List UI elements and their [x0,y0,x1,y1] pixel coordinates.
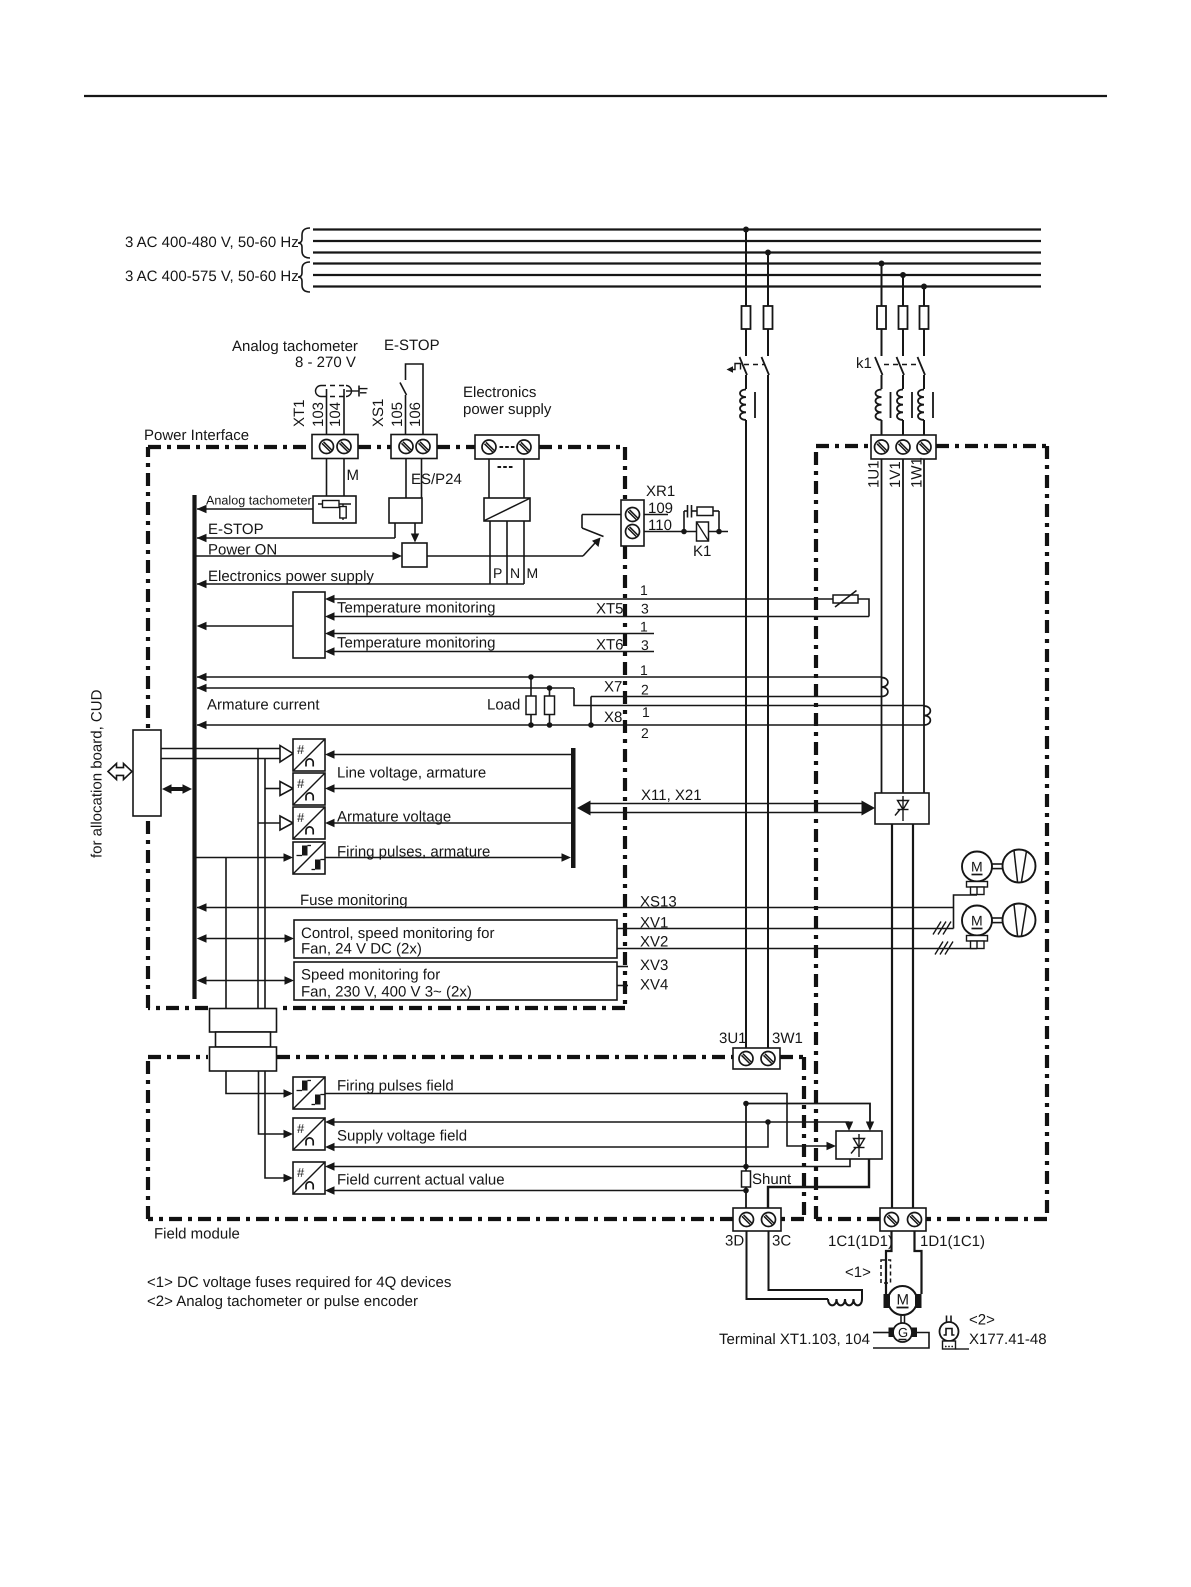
trunk vertical 258 [257,749,259,1009]
screw terminal XT1.104 [337,440,351,454]
analog tachometer box [313,496,356,523]
snubber resistor [697,507,713,516]
temperature monitoring block [293,592,325,658]
fan feed vertical [954,895,978,929]
node R2 top [547,685,553,691]
svg-text:Firing pulses field: Firing pulses field [337,1078,454,1095]
wire E-STOP lead 105 [405,395,407,435]
field winding coil [828,1299,862,1305]
svg-text:3C: 3C [772,1233,791,1250]
converter block U3 armature voltage [293,807,325,839]
armature current X8-1 line [197,724,924,726]
load resistor R2 [549,688,551,696]
wire EPS left lead [488,459,490,498]
armature current X7-2 line [197,687,574,689]
motor M [888,1286,917,1315]
screw terminal EPS left [482,440,496,454]
svg-text:1V1: 1V1 [887,461,904,488]
current transformer CT1 [882,678,888,697]
Power module box border right [1045,446,1049,1219]
fuse F3 [877,306,886,329]
brace group2 [298,262,310,292]
svg-text:1D1(1C1): 1D1(1C1) [920,1233,985,1250]
wire coil to 1U1 [881,420,883,435]
screw terminal 1W1 [917,440,931,454]
svg-text:1: 1 [640,619,648,635]
svg-text:Analog tachometer: Analog tachometer [206,494,312,508]
svg-text:Analog tachometer: Analog tachometer [232,338,358,355]
svg-text:XV3: XV3 [640,957,668,974]
armature current X7-1 line [197,676,882,678]
inductor on 881 [876,390,882,420]
svg-text:ES/P24: ES/P24 [411,471,462,488]
svg-text:1W1: 1W1 [909,457,926,488]
firing line U4 to bar [325,857,562,859]
line from U3 to bar [325,819,335,827]
svg-text:3D: 3D [725,1233,744,1250]
svg-text:1C1(1D1): 1C1(1D1) [828,1233,893,1250]
mains bus line L1b [313,262,1041,264]
svg-text:Fan, 24 V DC (2x): Fan, 24 V DC (2x) [301,941,422,958]
svg-text:#: # [297,1165,305,1180]
svg-text:<1> DC voltage fuses required: <1> DC voltage fuses required for 4Q dev… [147,1274,451,1291]
E-STOP switch upper loop [406,364,424,435]
contactor k1 blade A [875,357,883,375]
firing line from bus to U4 [196,857,284,859]
double arrow bus to box1 [205,938,285,940]
wire fuse to contact 746 [745,329,747,356]
svg-text:E-STOP: E-STOP [208,521,264,538]
trunk vertical 265 [264,759,266,1009]
svg-text:power supply: power supply [463,401,552,418]
wire tach lead 104 [343,389,345,435]
wire fuse to contact 768 [767,329,769,356]
node tap5 [921,284,927,290]
armature wire 1C1 to motor [886,1231,892,1294]
svg-text:1U1: 1U1 [866,460,883,488]
screw terminal EPS right [517,440,531,454]
Power module box border left [814,446,818,1219]
svg-text:#: # [297,776,305,791]
svg-text:Line voltage, armature: Line voltage, armature [337,765,486,782]
svg-text:XV1: XV1 [640,915,668,932]
XV1 slashes [933,922,951,935]
node tap1 [743,227,749,233]
firing pulse block U4 [293,842,325,874]
trunk vertical 256 field [259,1071,285,1134]
pulse encoder [940,1322,959,1341]
svg-text:Armature current: Armature current [207,697,320,714]
wire fuse to contact 924 [923,329,925,356]
svg-text:8 - 270 V: 8 - 270 V [295,354,356,371]
fan1 shaft [992,863,1003,865]
open double arrow to CUD [108,764,132,780]
tachometer shield terminal [346,390,359,392]
svg-text:3W1: 3W1 [772,1030,803,1047]
svg-text:104: 104 [327,402,344,427]
Power module box border bottom [816,1217,1047,1221]
node tap2 [765,250,771,256]
board connector stack lower [210,1047,277,1071]
svg-text:2: 2 [641,725,649,741]
Power Interface box border left [146,447,150,1008]
fan1 impeller [1003,850,1036,883]
trunk vertical 226 field [226,1071,284,1094]
node tap3 [879,261,885,267]
node R1 top [528,674,534,680]
screw terminal XS1.106 [416,440,430,454]
screw terminal 1U1 [875,440,889,454]
svg-text:Fuse monitoring: Fuse monitoring [300,892,408,909]
contactor linkage dashed [884,364,920,366]
screw terminal XR1.110 [626,525,640,539]
svg-text:X177.41-48: X177.41-48 [969,1331,1047,1348]
wire contact to coil 924 [923,375,925,389]
svg-text:XT6: XT6 [596,637,624,654]
terminal block 3U1 3W1 [733,1048,780,1069]
Power ON box [402,543,427,567]
wire 104 to tach box [343,459,345,497]
left signal bus vertical [192,495,196,999]
CUD connector [133,730,161,816]
wire fuse to contact 881 [881,329,883,356]
Field module box border left [146,1057,150,1219]
svg-text:#: # [297,810,305,825]
3U1 tap line to field bridge [743,1101,749,1107]
svg-text:3 AC 400-575 V, 50-60 Hz: 3 AC 400-575 V, 50-60 Hz [125,268,299,285]
svg-text:P: P [493,565,502,581]
wire drop feed 768 upper [767,253,769,307]
line from U1 to bar [325,750,335,758]
supply voltage top line [325,1118,335,1126]
node tap4 [900,272,906,278]
breaker manual actuator [731,364,741,370]
XT5 line 3 [325,612,335,620]
node R1 bottom [528,722,534,728]
screw terminal 3W1 [761,1052,775,1066]
wire coil down 746 long [745,420,747,1069]
svg-text:105: 105 [389,402,406,427]
terminal block electronics power supply [475,435,539,459]
svg-text:Shunt: Shunt [752,1171,792,1188]
svg-text:M: M [971,859,983,875]
svg-text:103: 103 [310,402,327,427]
field current top line [325,1162,335,1170]
svg-text:XS13: XS13 [640,894,677,911]
screw terminal XS1.105 [399,440,413,454]
mains bus line L3b [313,285,1041,287]
svg-text:Electronics: Electronics [463,384,536,401]
wire 1V1 down [902,459,904,793]
armature wire 1D1 to motor [915,1231,922,1294]
node K1 right [716,529,722,535]
svg-text:G: G [898,1325,908,1340]
motor shaft [900,1315,902,1323]
svg-text:Power Interface: Power Interface [144,427,249,444]
fuse F5 [920,306,929,329]
converter block U1 line voltage [293,739,325,771]
wire tach lead 103 [326,389,328,435]
svg-text:Temperature monitoring: Temperature monitoring [337,635,495,652]
fuse F2 [764,306,773,329]
current transformer CT2 [924,706,930,725]
inductor on 924 [918,390,924,420]
wire contact down 768 [767,375,769,1069]
svg-text:XT1: XT1 [291,399,308,427]
firing field line [325,1094,827,1147]
EPS dashes below block [498,466,513,468]
relay coil K1 [697,522,709,541]
svg-text:106: 106 [407,402,424,427]
svg-text:M: M [527,565,539,581]
screw terminal 3D [740,1213,754,1227]
wire 103 to tach box [326,459,328,497]
terminal block 1C1 1D1 [880,1208,926,1231]
svg-text:Field current actual value: Field current actual value [337,1172,505,1189]
RC snubber branch [683,511,685,532]
converter block field current [293,1162,325,1194]
XV1 line [617,928,954,930]
double arrow bus to box2 [205,980,285,982]
collector bar [571,748,576,868]
contactor k1 blade B [897,357,905,375]
svg-text:N: N [510,565,520,581]
inductor on 903 [897,390,903,420]
brace group1 [298,228,310,258]
svg-text:1: 1 [640,662,648,678]
svg-text:Temperature monitoring: Temperature monitoring [337,600,495,617]
E-STOP box [389,498,422,523]
DC output 1D1 [912,824,914,1208]
field bridge return thick [768,1159,869,1212]
screw terminal 1C1 [885,1213,899,1227]
wire P [489,521,491,584]
wire M [523,521,525,584]
wire coil to 1W1 [923,420,925,435]
svg-text:X7: X7 [604,679,622,696]
tacho wires [873,1332,889,1334]
svg-text:3: 3 [641,601,649,617]
svg-text:3 AC 400-480 V, 50-60 Hz: 3 AC 400-480 V, 50-60 Hz [125,234,299,251]
node R2 bottom [547,722,553,728]
fuse F1 [742,306,751,329]
wire contact to coil 746 [745,375,747,389]
svg-text:<1>: <1> [845,1264,871,1281]
node shunt top [743,1164,749,1170]
line from U2 to bar [325,784,335,792]
mains bus line L1a [313,228,1041,230]
svg-text:Electronics power supply: Electronics power supply [208,568,374,585]
wire fuse to contact 903 [902,329,904,356]
svg-text:#: # [297,1121,305,1136]
svg-text:X11, X21: X11, X21 [641,787,702,804]
XR1 aux contact blade [582,528,604,537]
field thyristor box [836,1131,882,1159]
svg-text:3: 3 [641,637,649,653]
Power module box border top [816,444,1047,448]
svg-text:Load: Load [487,697,520,714]
svg-text:XV4: XV4 [640,977,668,994]
screw terminal XR1.109 [626,508,640,522]
svg-text:2: 2 [641,682,649,698]
screw terminal 1D1 [908,1213,922,1227]
svg-text:Control, speed monitoring for: Control, speed monitoring for [301,925,494,942]
arrow estop to power-on box [414,523,416,535]
svg-text:XT5: XT5 [596,601,624,618]
inductor on 746 [740,390,746,420]
wire drop feed 746 upper [745,230,747,307]
mains bus line L2b [313,274,1041,276]
thick double arrow connector-bus [162,784,192,793]
svg-text:Supply voltage field: Supply voltage field [337,1128,467,1145]
Power Interface box border right [623,447,627,1008]
top horizontal rule [84,95,1107,97]
svg-text:M: M [971,913,983,929]
stub to block2 [265,788,280,790]
svg-text:Field module: Field module [154,1226,240,1243]
control speed monitoring box [294,920,617,958]
Power Interface box border top [148,445,625,449]
fuse F4 [899,306,908,329]
svg-text:E-STOP: E-STOP [384,337,440,354]
svg-text:Terminal XT1.103, 104: Terminal XT1.103, 104 [719,1331,870,1348]
svg-text:for allocation board, CUD: for allocation board, CUD [89,689,106,858]
terminal block XS1 [391,435,437,459]
svg-text:K1: K1 [693,543,711,560]
board connector stack middle [216,1032,271,1047]
svg-text:Fan, 230 V, 400 V 3~ (2x): Fan, 230 V, 400 V 3~ (2x) [301,984,472,1001]
wire drop feed 881 upper [881,264,883,307]
screw terminal 3U1 [739,1052,753,1066]
fan2 motor [962,906,992,936]
svg-text:M: M [347,467,360,484]
field current bottom line [325,1186,335,1194]
data bus double line to block1 [161,748,280,750]
converter block U2 armature voltage input [293,773,325,805]
svg-text:3U1: 3U1 [719,1030,747,1047]
converter block supply voltage field [293,1118,325,1150]
svg-text:X8: X8 [604,709,622,726]
svg-text:XS1: XS1 [370,399,387,427]
fan2 shaft [992,917,1003,919]
node shunt bottom [743,1188,749,1194]
stub to block3 [258,822,280,824]
Field module box border top [148,1055,804,1059]
svg-text:<2>: <2> [969,1312,995,1329]
fan1 motor [962,852,992,882]
wire 110 to K1 [644,531,728,533]
supply voltage bottom line [325,1143,335,1151]
tachometer symbol dashed stadium [321,385,346,387]
shunt resistor [745,1104,747,1172]
svg-text:M: M [897,1292,910,1309]
EPS converter box [484,498,530,521]
load resistor R1 [530,677,532,696]
wire 105 to estop box [405,459,407,499]
wire EPS right lead [523,459,525,498]
node supply 3W1 [765,1119,771,1125]
wire 1U1 down [881,459,883,793]
mains bus line L2a [313,240,1041,242]
temp block left arrow to bus [206,625,293,627]
XT6 line 3 [325,647,335,655]
circuit breaker contact blade 746 [740,357,748,375]
screw terminal 1V1 [896,440,910,454]
svg-text:k1: k1 [856,355,872,372]
dc fuse dashed [881,1260,891,1283]
mains bus line L3a [313,251,1041,253]
speed monitoring box [294,962,617,1000]
svg-text:1: 1 [642,704,650,720]
wire power-on to XR1 actuator [427,555,583,557]
circuit breaker contact blade 768 [762,357,770,375]
tacho generator G [893,1323,912,1342]
Field module box border bottom [148,1217,804,1221]
node K1 left [681,529,687,535]
X11 X21 ribbon [588,803,864,805]
terminal block XT1 [312,435,358,459]
terminal block XR1 [582,514,621,516]
board connector stack upper [210,1009,277,1033]
svg-text:#: # [297,742,305,757]
trunk vertical 263 field [265,1071,284,1178]
XV2 line [617,948,977,950]
XT5 line 1 [325,595,335,603]
motor field winding wiring [747,1231,829,1299]
armature thyristor bridge [875,793,929,824]
svg-text:XR1: XR1 [646,483,675,500]
wire N [506,521,508,584]
trunk vertical 226 [225,858,227,1009]
Field module box border right [802,1057,806,1219]
wire 106 to estop box [421,459,423,499]
svg-text:<2> Analog tachometer or pulse: <2> Analog tachometer or pulse encoder [147,1293,418,1310]
screw terminal XT1.103 [320,440,334,454]
terminal block 3D 3C [733,1208,781,1231]
E-STOP switch blade [400,383,407,396]
DC output 1C1 [891,824,893,1208]
svg-text:1: 1 [640,582,648,598]
screw terminal 3C [762,1213,776,1227]
thermistor sensor [833,595,858,603]
wire contact to coil 903 [902,375,904,389]
XT6 line 1 [325,629,335,637]
XV2 slashes [935,942,953,955]
svg-text:XV2: XV2 [640,934,668,951]
XV4 stub [617,985,628,987]
XV3 stub [617,966,628,968]
Power Interface box border bottom [148,1006,625,1010]
wire 1W1 down [923,459,925,793]
wire drop feed 924 upper [923,287,925,307]
fan2 impeller [1003,904,1036,937]
svg-text:Speed monitoring for: Speed monitoring for [301,967,440,984]
wire contact to coil 881 [881,375,883,389]
firing pulse block field [293,1077,325,1109]
wire 109 stub [644,514,668,516]
node CT1 return [588,722,594,728]
wire coil to 1V1 [902,420,904,435]
wire drop feed 903 upper [902,275,904,306]
contactor k1 blade C [918,357,926,375]
breaker linkage dashed [744,364,765,366]
terminal block 1U1 1V1 1W1 [871,435,936,459]
CT1 return line [591,697,882,726]
